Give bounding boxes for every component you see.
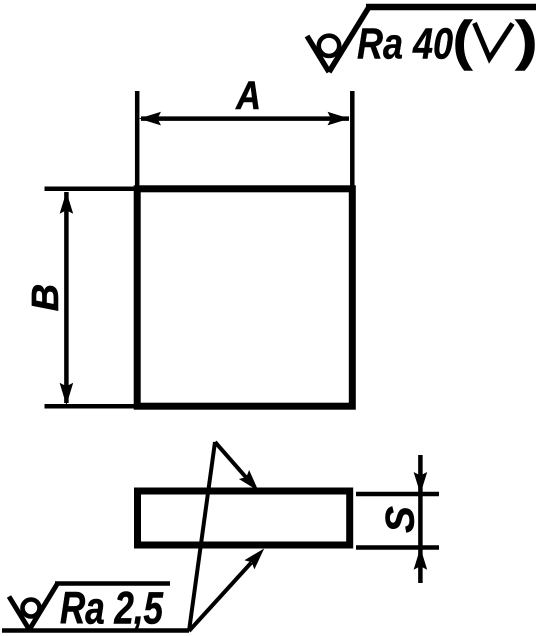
extension line A right bbox=[350, 91, 355, 186]
arrowhead S top bbox=[414, 472, 428, 494]
svg-text:B: B bbox=[25, 284, 67, 311]
leader arrow to bottom face bbox=[189, 563, 251, 632]
arrowhead B top bbox=[60, 192, 74, 214]
dimension line A bbox=[141, 116, 349, 121]
extension line S top bbox=[356, 492, 439, 497]
arrowhead B bottom bbox=[60, 383, 74, 405]
svg-text:): ) bbox=[515, 10, 536, 71]
circle of symbol bbox=[23, 600, 40, 617]
extension line B bottom bbox=[45, 404, 135, 409]
bar over text bbox=[55, 581, 170, 586]
vee left stroke bbox=[9, 597, 30, 631]
surface finish symbol Ra 40 (top right) bbox=[307, 7, 536, 72]
leader arrow to top face bbox=[215, 442, 246, 477]
extension line A left bbox=[135, 91, 140, 186]
plate side view outline bbox=[138, 491, 350, 545]
leader line from Ra 2,5 to apex bbox=[189, 442, 215, 631]
shelf baseline bbox=[2, 628, 189, 633]
arrowhead S bottom bbox=[414, 548, 428, 570]
surface finish symbol Ra 2,5 (bottom left) bbox=[2, 584, 189, 632]
extension line B top bbox=[45, 187, 135, 192]
svg-text:Ra 2,5: Ra 2,5 bbox=[60, 583, 164, 634]
extension line S bottom bbox=[356, 545, 439, 550]
basic check symbol in parentheses bbox=[475, 23, 513, 59]
svg-text:S: S bbox=[379, 506, 423, 533]
svg-text:A: A bbox=[235, 73, 261, 118]
dimension line B bbox=[64, 192, 69, 403]
arrowhead A left bbox=[139, 112, 161, 126]
plate top view outline bbox=[137, 189, 352, 406]
svg-text:Ra 40: Ra 40 bbox=[357, 20, 453, 69]
arrowhead A right bbox=[328, 112, 350, 126]
dimension line S bbox=[418, 455, 423, 583]
svg-text:(: ( bbox=[453, 10, 474, 71]
vee long stroke bbox=[29, 584, 58, 632]
